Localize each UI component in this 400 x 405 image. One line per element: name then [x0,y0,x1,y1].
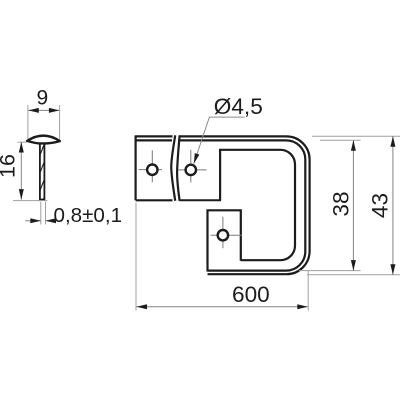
dimension 0,8 line left tail [25,220,41,222]
profile stem [40,144,45,200]
hole 2 center cross [179,150,207,183]
svg-text:38: 38 [329,191,354,216]
dimension 38 extension line bottom [299,270,361,272]
break line 1 (wavy) [171,135,175,201]
dimension 38 extension line top [320,139,361,141]
stem hatching [40,144,44,208]
svg-text:16: 16 [0,154,19,178]
dimension 600 arrow left [137,304,148,309]
dimension 600 line [137,306,308,308]
leader line for hole diameter [194,117,245,164]
dimension 16 arrow top [19,142,24,153]
dimension 9 extension line right [59,105,61,140]
dimension 16 line [20,142,22,200]
dimension 16 extension line bottom [13,200,47,202]
dimension 43 arrow top [390,136,395,147]
dimension 43 extension line bottom [307,274,400,276]
dimension 0,8 arrow left [30,218,41,223]
dimension 9 arrow left [28,108,39,113]
lower tab outline [208,210,241,271]
main outer contour [180,136,310,274]
svg-text:Ø4,5: Ø4,5 [214,94,263,119]
inner cut-out contour [220,150,295,260]
dimension 600 extension line right [307,270,309,311]
dimension 0,8 line right tail [46,220,57,222]
dimension 43 extension line top [312,135,400,137]
dimension 600 arrow right [297,304,308,309]
main inner offset line [180,140,306,270]
tab left edge [135,135,137,200]
profile cap (mushroom head) [27,136,60,144]
dimension 0,8 extension line left [40,202,42,225]
dimension 0,8 arrow right [46,218,57,223]
dimension 43 line [392,136,394,274]
left tab outline [136,135,173,200]
dimension 600 extension line left [135,203,137,311]
dimension 16 arrow bottom [19,189,24,200]
break line 2 (wavy) [177,135,180,201]
hole 1 [147,165,157,175]
dimension 43 arrow bottom [390,264,395,275]
leader arrowhead [194,153,200,164]
dimension 16 extension line top [18,141,27,143]
hole 3 [218,230,228,240]
dimension 9 line [28,109,59,111]
tab top inner line [136,139,172,141]
tab bottom edge [136,199,173,201]
svg-text:9: 9 [37,86,49,109]
dimension 0,8 extension line right [45,202,47,225]
dimension 9 arrow right [49,108,60,113]
upper strip bottom edge [180,199,222,201]
hole 2 [186,165,196,175]
svg-text:600: 600 [232,282,270,307]
tab top outer line [136,135,173,137]
dimension 9 extension line left [27,105,29,139]
svg-text:43: 43 [367,193,392,218]
dimension 38 arrow bottom [351,260,356,271]
hole 1 center cross [139,150,162,182]
dimension 38 arrow top [351,140,356,151]
hole 3 center cross [211,217,243,249]
dimension 38 line [352,140,354,270]
svg-text:0,8±0,1: 0,8±0,1 [54,204,123,227]
